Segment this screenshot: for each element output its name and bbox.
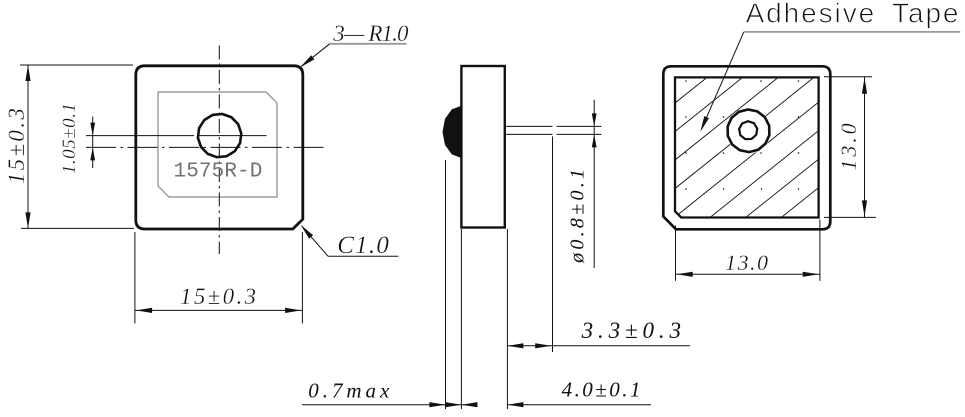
svg-text:C1.0: C1.0 <box>337 232 390 259</box>
svg-text:3.3±0.3: 3.3±0.3 <box>581 318 686 343</box>
svg-text:15±0.3: 15±0.3 <box>4 106 29 185</box>
svg-text:Adhesive Tape: Adhesive Tape <box>746 0 961 29</box>
svg-text:0.7max: 0.7max <box>308 379 393 403</box>
svg-text:13.0: 13.0 <box>725 250 769 275</box>
svg-text:3— R1.0: 3— R1.0 <box>332 21 409 46</box>
svg-text:13.0: 13.0 <box>836 121 861 171</box>
svg-text:4.0±0.1: 4.0±0.1 <box>562 378 643 402</box>
svg-text:15±0.3: 15±0.3 <box>180 284 258 309</box>
svg-text:1.05±0.1: 1.05±0.1 <box>59 102 80 174</box>
svg-text:ø0.8±0.1: ø0.8±0.1 <box>567 166 589 264</box>
svg-text:1575R-D: 1575R-D <box>174 160 263 183</box>
